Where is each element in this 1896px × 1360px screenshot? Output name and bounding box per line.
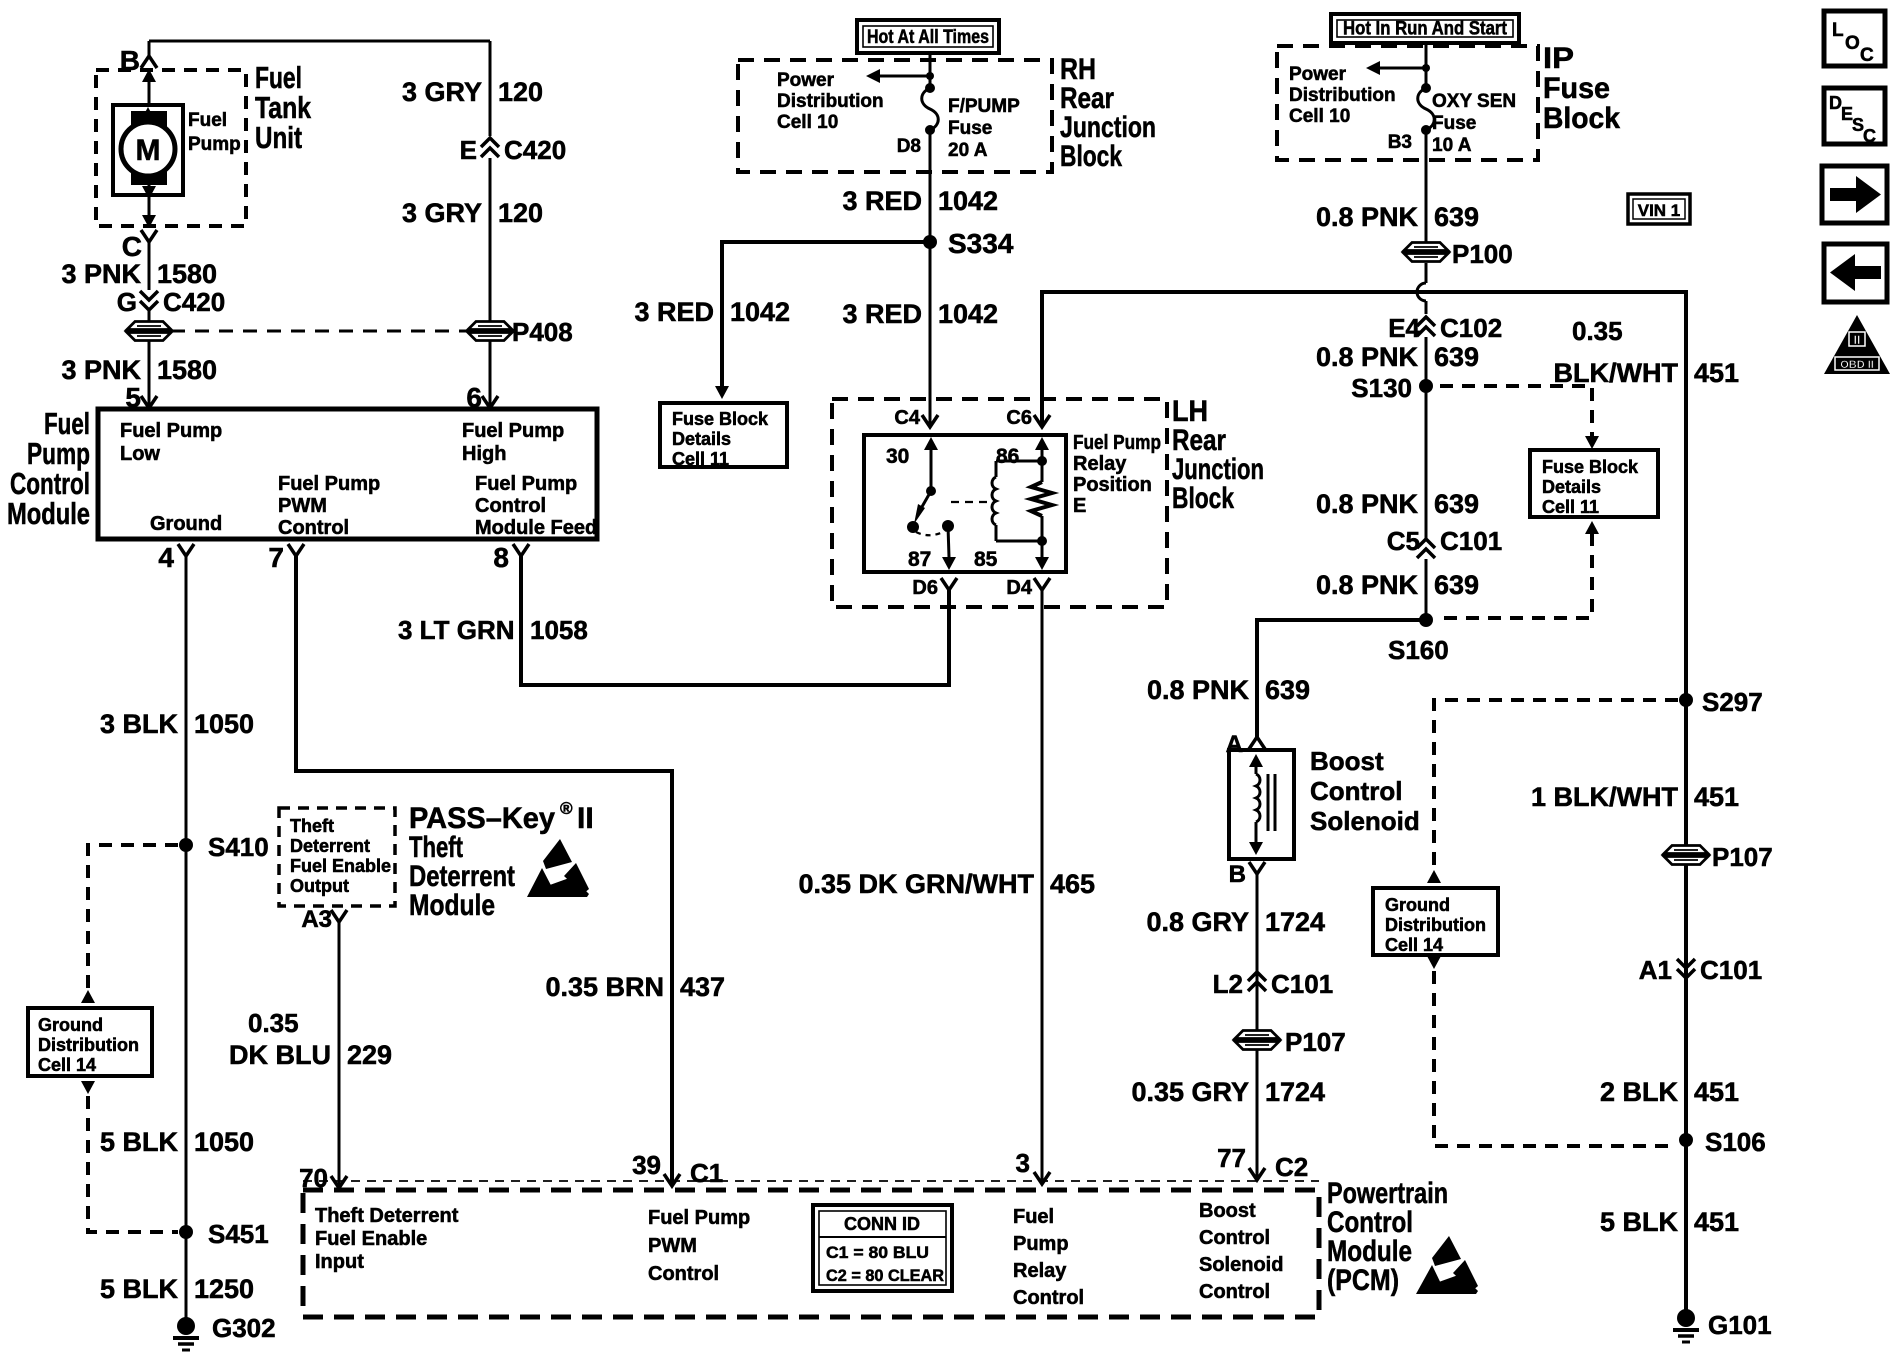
svg-text:O: O: [1845, 33, 1860, 54]
svg-text:Control: Control: [1310, 776, 1402, 806]
pcm label fuel pump relay control: [1013, 1206, 1084, 1309]
inline connector P107 left: [1233, 1027, 1346, 1057]
connector C101 L2: [1213, 969, 1334, 999]
svg-text:OXY SEN: OXY SEN: [1432, 91, 1516, 112]
pcm pin 39 fork C1: [632, 1150, 723, 1188]
arrow right icon: [1822, 166, 1887, 223]
vin 1 box: [1628, 194, 1690, 224]
svg-text:S451: S451: [208, 1219, 269, 1249]
svg-text:VIN 1: VIN 1: [1638, 201, 1681, 220]
connector D6 fork: [912, 577, 957, 599]
svg-text:Fuel Pump: Fuel Pump: [278, 473, 380, 495]
svg-text:C5: C5: [1387, 526, 1420, 556]
svg-text:Low: Low: [120, 443, 160, 465]
svg-text:Relay: Relay: [1073, 453, 1127, 475]
dashed S410 to ground distribution: [88, 845, 178, 990]
svg-text:Control: Control: [1199, 1227, 1270, 1249]
svg-text:0.8 PNK: 0.8 PNK: [1316, 570, 1419, 600]
svg-text:E: E: [1073, 495, 1086, 517]
svg-text:5 BLK: 5 BLK: [100, 1127, 179, 1157]
svg-text:Theft Deterrent: Theft Deterrent: [315, 1205, 459, 1227]
wire top horizontal from fuel pump B to C420 E branch: [149, 41, 490, 56]
svg-text:Block: Block: [1543, 102, 1620, 135]
svg-text:229: 229: [347, 1040, 392, 1070]
svg-text:Cell 14: Cell 14: [1385, 935, 1443, 955]
pin 6 fork: [466, 382, 498, 413]
pin 7 fork: [268, 542, 304, 573]
svg-text:Distribution: Distribution: [1289, 85, 1396, 106]
label 0.8 PNK 639 solenoid: [1147, 675, 1310, 705]
power distribution arrow ip: [1366, 61, 1430, 75]
module label ground: [150, 513, 222, 535]
svg-text:Cell 14: Cell 14: [38, 1055, 96, 1075]
ground distribution right arrow down: [1427, 956, 1441, 969]
pin A3 fork: [301, 906, 347, 933]
label 3 RED 1042 left: [634, 297, 790, 327]
ground distribution cell 14 box left: [28, 1008, 152, 1076]
svg-text:1050: 1050: [194, 709, 254, 739]
svg-text:L2: L2: [1213, 969, 1243, 999]
connector C fork: [122, 230, 157, 262]
svg-text:639: 639: [1434, 202, 1479, 232]
label 0.8 GRY 1724: [1146, 907, 1325, 937]
svg-text:(PCM): (PCM): [1327, 1264, 1399, 1297]
fuse F/PUMP 20A: [897, 83, 1020, 161]
svg-text:0.35 GRY: 0.35 GRY: [1131, 1077, 1249, 1107]
powertrain control module title: [1327, 1177, 1448, 1297]
svg-text:Fuel Enable: Fuel Enable: [290, 856, 391, 876]
pcm label fuel pump pwm: [648, 1207, 750, 1285]
svg-text:3 RED: 3 RED: [842, 186, 922, 216]
svg-text:30: 30: [886, 445, 909, 468]
svg-text:Fuel Pump: Fuel Pump: [120, 420, 222, 442]
node S130: [1351, 373, 1433, 403]
label 1 BLK/WHT 451: [1531, 782, 1739, 812]
svg-text:C420: C420: [504, 135, 566, 165]
connector C102 E4: [1388, 313, 1502, 343]
relay coil resistor: [1031, 461, 1052, 546]
svg-text:E: E: [460, 135, 477, 165]
label 0.8 PNK 639 lower: [1316, 570, 1479, 600]
loc icon: [1824, 11, 1885, 66]
svg-text:Boost: Boost: [1199, 1200, 1256, 1222]
svg-text:3 LT GRN: 3 LT GRN: [398, 615, 515, 645]
svg-text:Output: Output: [290, 876, 349, 896]
svg-text:CONN ID: CONN ID: [844, 1214, 920, 1234]
connector C101 A1: [1639, 955, 1762, 985]
svg-text:C6: C6: [1006, 407, 1032, 429]
svg-text:A1: A1: [1639, 955, 1672, 985]
svg-text:3: 3: [1016, 1148, 1030, 1178]
svg-text:4: 4: [158, 542, 174, 573]
svg-text:C2 = 80 CLEAR: C2 = 80 CLEAR: [826, 1266, 944, 1285]
dashed S297 to ground distribution right: [1434, 700, 1678, 870]
svg-text:Ground: Ground: [38, 1015, 103, 1035]
power distribution cell10 label ip: [1289, 64, 1396, 127]
label 3 GRY 120 upper: [402, 77, 543, 107]
svg-text:D6: D6: [912, 577, 938, 599]
svg-text:Position: Position: [1073, 474, 1152, 496]
svg-text:Deterrent: Deterrent: [290, 836, 370, 856]
svg-text:Hot In Run And Start: Hot In Run And Start: [1343, 19, 1508, 40]
svg-text:Hot At All Times: Hot At All Times: [867, 27, 989, 48]
svg-text:C1 = 80 BLU: C1 = 80 BLU: [826, 1243, 929, 1262]
relay switch dashed link: [916, 531, 945, 535]
label 0.35 GRY 1724: [1131, 1077, 1325, 1107]
wire fuse to P100: [1425, 130, 1428, 242]
svg-text:85: 85: [974, 548, 998, 571]
svg-text:Ground: Ground: [150, 513, 222, 535]
svg-text:2 BLK: 2 BLK: [1600, 1077, 1679, 1107]
label 0.35 DK BLU 229: [229, 1008, 392, 1070]
wire S334 to relay C4: [929, 242, 932, 426]
dashed S130 to fuse block details: [1440, 386, 1599, 449]
svg-text:5 BLK: 5 BLK: [1600, 1207, 1679, 1237]
svg-text:OBD II: OBD II: [1840, 359, 1874, 371]
label 5 BLK 1250: [100, 1274, 254, 1304]
svg-text:3 PNK: 3 PNK: [61, 355, 141, 385]
svg-text:S410: S410: [208, 832, 269, 862]
svg-text:Module Feed: Module Feed: [475, 517, 597, 539]
svg-text:M: M: [136, 134, 161, 167]
svg-text:Cell 11: Cell 11: [672, 449, 729, 469]
svg-text:Distribution: Distribution: [777, 91, 884, 112]
svg-text:Distribution: Distribution: [38, 1035, 139, 1055]
svg-text:D4: D4: [1006, 577, 1032, 599]
svg-text:3 BLK: 3 BLK: [100, 709, 179, 739]
fuel pump control module box: [98, 409, 597, 539]
svg-text:G: G: [117, 287, 137, 317]
ground distribution cell 14 arrow up: [81, 990, 95, 1003]
boost control solenoid title: [1310, 746, 1420, 836]
svg-text:1042: 1042: [938, 299, 998, 329]
svg-text:C4: C4: [894, 407, 920, 429]
connector C6 fork: [1006, 407, 1050, 429]
svg-text:Block: Block: [1060, 140, 1122, 173]
desc icon: [1824, 88, 1885, 146]
ground distribution right arrow up: [1427, 870, 1441, 883]
ground distribution cell 14 arrow down: [81, 1081, 95, 1094]
inline connector P408: [466, 317, 573, 347]
wire hot in run to fuse: [1425, 43, 1428, 88]
conn id table: [813, 1205, 952, 1291]
svg-text:High: High: [462, 443, 506, 465]
svg-text:Relay: Relay: [1013, 1260, 1067, 1282]
label 0.35 BRN 437: [545, 972, 725, 1002]
svg-text:®: ®: [560, 799, 573, 818]
pcm label theft deterrent input: [315, 1205, 459, 1273]
connector C101 C5: [1387, 526, 1502, 558]
svg-text:0.35 DK GRN/WHT: 0.35 DK GRN/WHT: [798, 869, 1034, 899]
pin 4 fork: [158, 542, 194, 573]
svg-text:P100: P100: [1452, 239, 1513, 269]
svg-text:C101: C101: [1271, 969, 1333, 999]
svg-text:87: 87: [908, 548, 931, 571]
svg-text:39: 39: [632, 1150, 661, 1180]
svg-text:1050: 1050: [194, 1127, 254, 1157]
svg-text:1580: 1580: [157, 355, 217, 385]
wire pin 4 ground run: [185, 556, 188, 1326]
svg-text:Fuel: Fuel: [1013, 1206, 1054, 1228]
wire solenoid B to PCM pin 77: [1256, 874, 1259, 1180]
wire P408 to pin 6: [489, 341, 492, 406]
svg-text:0.35: 0.35: [1572, 316, 1623, 346]
fuel pump control module title: [7, 406, 90, 531]
svg-text:B: B: [1229, 861, 1246, 888]
power distribution arrow rh: [866, 69, 934, 83]
svg-text:Theft: Theft: [290, 816, 334, 836]
ip fuse block dashed box: [1277, 46, 1538, 160]
pcm dashed box: [303, 1181, 1319, 1317]
svg-text:0.8 PNK: 0.8 PNK: [1316, 342, 1419, 372]
fuse OXY SEN 10A: [1388, 83, 1516, 156]
connector D4 fork: [1006, 577, 1050, 599]
pcm pin 3 fork: [1016, 1148, 1050, 1184]
svg-text:DK BLU: DK BLU: [229, 1040, 331, 1070]
label 0.35 BLK/WHT 451: [1554, 316, 1740, 388]
svg-text:Boost: Boost: [1310, 746, 1384, 776]
svg-text:S297: S297: [1702, 687, 1763, 717]
svg-text:C101: C101: [1440, 526, 1502, 556]
svg-text:1042: 1042: [730, 297, 790, 327]
boost control solenoid box: [1229, 750, 1294, 859]
svg-text:Fuel Pump: Fuel Pump: [648, 1207, 750, 1229]
label 0.8 PNK 639 mid: [1316, 489, 1479, 519]
svg-text:C102: C102: [1440, 313, 1502, 343]
pin 5 fork: [125, 382, 157, 413]
svg-text:PWM: PWM: [648, 1235, 697, 1257]
svg-text:Details: Details: [672, 429, 731, 449]
svg-text:C: C: [122, 231, 142, 262]
label 3 PNK 1580 upper: [61, 259, 217, 289]
svg-text:20 A: 20 A: [948, 140, 988, 161]
svg-text:C1: C1: [690, 1158, 723, 1188]
node S451: [179, 1219, 269, 1249]
svg-text:3 GRY: 3 GRY: [402, 198, 482, 228]
svg-text:0.8 PNK: 0.8 PNK: [1316, 489, 1419, 519]
svg-text:Power: Power: [777, 70, 835, 91]
esd symbol pcm: [1416, 1236, 1478, 1294]
svg-text:437: 437: [680, 972, 725, 1002]
svg-text:Cell 11: Cell 11: [1542, 497, 1599, 517]
svg-text:IP: IP: [1543, 42, 1574, 75]
label 0.8 PNK 639 s130: [1316, 342, 1479, 372]
wire pin 8 to relay 87 D6: [521, 556, 949, 685]
rh rear junction block dashed box: [738, 60, 1052, 172]
svg-text:0.35 BRN: 0.35 BRN: [545, 972, 664, 1002]
fuse block details cell 11 box left: [660, 403, 787, 469]
svg-text:Control: Control: [648, 1263, 719, 1285]
label 3 PNK 1580 lower: [61, 355, 217, 385]
svg-text:Distribution: Distribution: [1385, 915, 1486, 935]
wire fuel pump to connector C: [142, 182, 156, 228]
node S106: [1679, 1127, 1766, 1157]
wire relay D4 to PCM pin 3: [1041, 590, 1044, 1184]
wire C5 to S160: [1425, 559, 1428, 620]
svg-text:Control: Control: [278, 517, 349, 539]
svg-text:P107: P107: [1712, 842, 1773, 872]
wire fuse to S334: [929, 130, 932, 242]
svg-text:Module: Module: [7, 496, 90, 531]
fuel pump relay box: [864, 435, 1066, 572]
svg-text:1724: 1724: [1265, 1077, 1325, 1107]
svg-text:Unit: Unit: [255, 120, 302, 155]
svg-text:A3: A3: [301, 906, 332, 933]
fuel pump motor M1: [113, 105, 241, 195]
fuse block details cell 11 box right: [1530, 450, 1658, 517]
svg-text:8: 8: [493, 542, 509, 573]
svg-text:1058: 1058: [530, 615, 588, 645]
svg-text:0.8 PNK: 0.8 PNK: [1316, 202, 1419, 232]
wire E to P408: [489, 158, 492, 321]
svg-text:Solenoid: Solenoid: [1199, 1254, 1283, 1276]
svg-text:465: 465: [1050, 869, 1095, 899]
connector C4 fork: [894, 407, 938, 429]
svg-text:451: 451: [1694, 782, 1739, 812]
svg-text:Ground: Ground: [1385, 895, 1450, 915]
svg-text:F/PUMP: F/PUMP: [948, 96, 1020, 117]
connector B male arrow: [142, 69, 156, 105]
svg-text:86: 86: [996, 445, 1019, 468]
wire A3 to PCM pin 70: [338, 922, 341, 1186]
svg-text:L: L: [1832, 20, 1844, 41]
svg-text:C2: C2: [1275, 1152, 1308, 1182]
dashed ground distribution to S106: [1434, 971, 1676, 1146]
label 5 BLK 451 right: [1600, 1207, 1739, 1237]
svg-text:1 BLK/WHT: 1 BLK/WHT: [1531, 782, 1678, 812]
svg-text:639: 639: [1265, 675, 1310, 705]
svg-text:II: II: [1854, 333, 1861, 347]
fuel tank unit dashed box: [96, 70, 246, 226]
wire to pin 5: [148, 341, 151, 406]
ground G101: [1673, 1309, 1772, 1342]
node S334: [923, 228, 1014, 259]
connector C420 G: [117, 287, 225, 317]
label 5 BLK 1050: [100, 1127, 254, 1157]
wire S130 to C5: [1425, 386, 1428, 540]
svg-text:70: 70: [299, 1163, 328, 1193]
svg-text:451: 451: [1694, 358, 1739, 388]
svg-text:Power: Power: [1289, 64, 1347, 85]
lh rear junction block dashed box: [832, 399, 1167, 607]
relay pin 30: [886, 437, 938, 491]
relay armature dashed: [951, 501, 988, 503]
relay coil: [992, 461, 1042, 541]
wire C to G C420: [148, 242, 151, 290]
hot at all times box: [857, 20, 999, 53]
svg-text:C101: C101: [1700, 955, 1762, 985]
svg-text:Cell 10: Cell 10: [777, 112, 838, 133]
svg-text:Control: Control: [475, 495, 546, 517]
pass key title: [409, 799, 594, 922]
svg-text:BLK/WHT: BLK/WHT: [1554, 358, 1679, 388]
wire C420 E branch down: [489, 41, 492, 136]
svg-text:Details: Details: [1542, 477, 1601, 497]
pass key box labels: [290, 816, 391, 896]
hot in run and start box: [1331, 14, 1519, 43]
svg-text:C: C: [1863, 126, 1876, 146]
label 0.35 DK GRN/WHT 465: [798, 869, 1095, 899]
label 3 GRY 120 lower: [402, 198, 543, 228]
svg-text:C420: C420: [163, 287, 225, 317]
svg-text:0.35: 0.35: [248, 1008, 299, 1038]
svg-text:7: 7: [268, 542, 284, 573]
svg-text:II: II: [577, 802, 594, 835]
svg-text:Fuse Block: Fuse Block: [1542, 457, 1639, 477]
svg-text:1250: 1250: [194, 1274, 254, 1304]
node S297: [1679, 687, 1763, 717]
svg-text:E4: E4: [1388, 313, 1420, 343]
connector C420 E: [460, 135, 567, 165]
wire pin 7 to PCM pin 39: [296, 556, 672, 1186]
ground distribution cell 14 box right: [1373, 888, 1498, 955]
svg-text:Fuel Pump: Fuel Pump: [475, 473, 577, 495]
inline connector P100: [1402, 239, 1513, 269]
pin B fork: [1229, 861, 1265, 888]
rh junction block title: [1060, 53, 1156, 173]
svg-text:Control: Control: [1013, 1287, 1084, 1309]
wire S334 branch to fuse block details: [715, 242, 930, 399]
svg-text:Pump: Pump: [188, 134, 241, 155]
svg-text:Fuel: Fuel: [188, 110, 227, 131]
svg-text:639: 639: [1434, 570, 1479, 600]
svg-text:120: 120: [498, 198, 543, 228]
inline connector fuel tank harness: [125, 322, 173, 341]
relay switch arm: [907, 486, 954, 533]
svg-text:Fuse: Fuse: [1543, 72, 1610, 105]
svg-text:S334: S334: [948, 228, 1014, 259]
label 3 LT GRN 1058: [398, 615, 588, 645]
wire hot at all times to fuse: [929, 53, 932, 88]
pcm label boost control solenoid control: [1199, 1200, 1283, 1303]
svg-text:G302: G302: [212, 1313, 276, 1343]
svg-text:Block: Block: [1172, 482, 1234, 515]
module label fuel pump control module feed: [475, 473, 597, 539]
svg-text:3 GRY: 3 GRY: [402, 77, 482, 107]
relay pin 85: [974, 541, 1049, 571]
svg-text:P107: P107: [1285, 1027, 1346, 1057]
pcm pin 77 fork C2: [1217, 1143, 1308, 1182]
wire G to inline connector: [148, 310, 151, 321]
svg-text:451: 451: [1694, 1207, 1739, 1237]
fuel tank unit label: [255, 60, 312, 155]
relay pin 87: [908, 526, 956, 571]
svg-text:1724: 1724: [1265, 907, 1325, 937]
label 3 RED 1042 upper: [842, 186, 998, 216]
svg-text:S106: S106: [1705, 1127, 1766, 1157]
fuel pump relay label: [1073, 432, 1161, 517]
module label fuel pump high: [462, 420, 564, 465]
svg-text:3 PNK: 3 PNK: [61, 259, 141, 289]
svg-text:3 RED: 3 RED: [634, 297, 714, 327]
dashed S160 to fuse block details: [1442, 521, 1599, 618]
svg-text:0.8 GRY: 0.8 GRY: [1146, 907, 1249, 937]
svg-text:PWM: PWM: [278, 495, 327, 517]
svg-text:5 BLK: 5 BLK: [100, 1274, 179, 1304]
power distribution cell10 label rh: [777, 70, 884, 133]
label 0.8 PNK 639 top: [1316, 202, 1479, 232]
node S410: [179, 832, 269, 862]
label 3 BLK 1050: [100, 709, 254, 739]
relay pin 86: [996, 437, 1049, 468]
obd ii icon: [1824, 315, 1890, 374]
svg-text:Cell 10: Cell 10: [1289, 106, 1350, 127]
svg-text:Control: Control: [1199, 1281, 1270, 1303]
svg-text:0.8 PNK: 0.8 PNK: [1147, 675, 1250, 705]
svg-text:D8: D8: [897, 136, 921, 157]
label 2 BLK 451: [1600, 1077, 1739, 1107]
wire relay C6 up and across to right rail: [1042, 292, 1686, 1318]
